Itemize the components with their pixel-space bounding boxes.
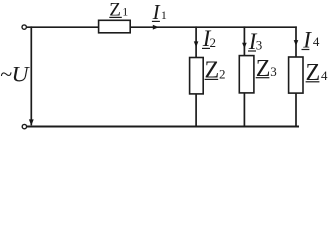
svg-text:1: 1 xyxy=(161,8,167,22)
wire top from input terminal to Z1 xyxy=(27,26,99,28)
label Z2 xyxy=(205,58,226,84)
wire bottom rail xyxy=(27,126,299,128)
arrow source current (down, left wire) xyxy=(29,119,34,125)
wire top from Z1 to top-right corner xyxy=(130,26,297,28)
terminal bottom-left xyxy=(22,124,26,128)
impedance Z1 box xyxy=(99,20,131,33)
label Z4 xyxy=(306,60,329,86)
wire branch 3 upper xyxy=(243,26,245,55)
impedance Z2 box xyxy=(190,58,204,94)
arrow I1 (right, on top wire) xyxy=(153,25,159,30)
wire branch 3 lower xyxy=(243,93,245,127)
svg-text:1: 1 xyxy=(122,5,128,19)
svg-text:4: 4 xyxy=(313,34,320,49)
wire branch 4 upper (right edge) xyxy=(295,26,297,57)
svg-text:2: 2 xyxy=(210,35,217,50)
svg-text:4: 4 xyxy=(321,68,328,83)
wire left vertical (source branch) xyxy=(30,26,32,125)
impedance Z3 box xyxy=(239,56,254,93)
label Z3 xyxy=(256,56,277,82)
label I1 xyxy=(152,0,167,24)
svg-text:3: 3 xyxy=(270,64,277,79)
svg-text:2: 2 xyxy=(219,66,226,81)
svg-text:I: I xyxy=(152,0,161,24)
label I3 xyxy=(248,29,262,54)
svg-text:3: 3 xyxy=(256,38,263,53)
wire branch 2 upper xyxy=(195,26,197,57)
arrow I3 (down, branch 3) xyxy=(242,43,247,49)
arrow I4 (down, branch 4) xyxy=(294,40,299,46)
impedance Z4 box xyxy=(289,57,303,93)
wire branch 4 lower xyxy=(295,93,297,126)
arrow I2 (down, branch 2) xyxy=(194,41,199,47)
svg-text:U: U xyxy=(12,61,31,86)
label Z1 xyxy=(109,0,128,21)
label I4 xyxy=(302,28,320,53)
wire branch 2 lower xyxy=(195,94,197,127)
terminal top-left xyxy=(22,25,26,29)
svg-text:~: ~ xyxy=(0,61,12,86)
label I2 xyxy=(202,26,216,51)
